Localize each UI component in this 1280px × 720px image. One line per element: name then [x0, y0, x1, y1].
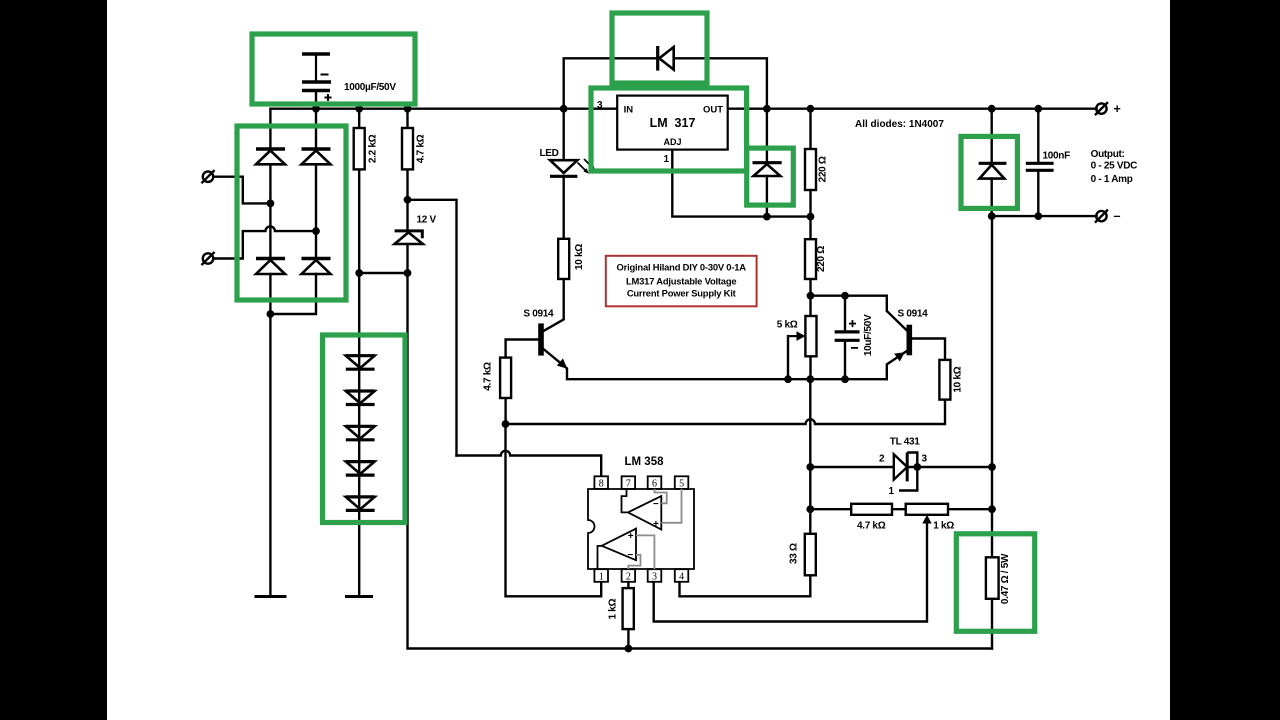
resistor R5 4.7k body [500, 358, 511, 398]
resistor R14 0.47/5W body [986, 557, 999, 599]
node: OUT bus at D8 [763, 105, 771, 113]
op-amp A output jog to pin 7 [622, 489, 628, 513]
highlight box: LM317 [591, 88, 747, 171]
svg-text:33 Ω: 33 Ω [789, 543, 800, 564]
wire: main input bus y=108.7 from bridge corner to LM317 IN [270, 109, 617, 148]
node: ADJ rail at R6/R7 [807, 213, 815, 221]
input terminal A (upper) [202, 170, 215, 183]
highlight box: output diode D7 [961, 136, 1017, 208]
capacitor C3 100nF [1026, 163, 1054, 170]
capacitor C2 10uF/50V [835, 320, 860, 348]
wire: LED column top corner to bypass diode wire y=58.3 [564, 58, 658, 108]
svg-text:5 kΩ: 5 kΩ [777, 320, 798, 331]
diode D1 bridge top-left [256, 149, 285, 164]
LM358 pin 7 [622, 476, 636, 489]
diode D2 bridge top-right [302, 149, 331, 164]
diode D6 bypass (top) [658, 46, 674, 71]
node: divider row at x=810 [806, 505, 814, 513]
wire: 5k pot bottom lead [809, 356, 811, 379]
svg-text:2.2 kΩ: 2.2 kΩ [368, 134, 379, 163]
highlight box: bridge rectifier [237, 126, 346, 300]
wire: zener column down corner to bottom bus y=648 [408, 273, 993, 649]
wire: Q2 base to R10 10k [912, 339, 945, 360]
wire: bridge left column D1 to AC junction [269, 164, 271, 258]
wire: LM317 OUT to bus [728, 107, 1097, 109]
node: minus column at divider row [988, 505, 996, 513]
node: bus at R1 [355, 105, 363, 113]
diode D7 output protect [979, 163, 1007, 178]
node: minus rail at D7 [988, 212, 996, 220]
node: C2 top [841, 292, 849, 300]
wire: zener junction down to zener D5 [406, 200, 408, 231]
svg-text:4.7 kΩ: 4.7 kΩ [416, 134, 427, 163]
svg-text:10 kΩ: 10 kΩ [574, 244, 585, 270]
svg-text:S 0914: S 0914 [523, 309, 554, 320]
svg-text:100nF: 100nF [1043, 151, 1071, 162]
ground bar left (bridge return) [255, 595, 287, 598]
diode chain D13 [346, 497, 375, 511]
diode D3 bridge bottom-left [256, 259, 285, 275]
svg-text:220 Ω: 220 Ω [816, 246, 827, 272]
resistor R6 220 body [805, 149, 816, 190]
svg-text:3: 3 [597, 100, 603, 111]
IC U2 LM358 [588, 476, 694, 582]
svg-text:Current Power Supply Kit: Current Power Supply Kit [627, 287, 736, 298]
svg-text:OUT: OUT [703, 105, 723, 116]
letterbox right black bar [1170, 0, 1280, 720]
wire: ADJ diode to ADJ rail [766, 176, 768, 217]
node: minus rail at C3 [1034, 212, 1042, 220]
svg-text:0 - 1 Amp: 0 - 1 Amp [1091, 174, 1133, 185]
op-amp U1 LM317 body [617, 96, 728, 150]
wire: from zener junction right then down to pin8 feed [408, 200, 457, 456]
svg-text:6: 6 [652, 479, 657, 490]
resistor R9 1k body (horizontal, pot) [906, 504, 948, 524]
op-amp A (top, pins 5-6-7) [628, 496, 661, 529]
node: OUT bus at R6 [807, 105, 815, 113]
svg-text:–: – [1114, 209, 1121, 223]
node: AC1 into bridge [267, 200, 275, 208]
LM358 pin 5 [675, 476, 689, 489]
LM358 pin 6 [648, 476, 662, 489]
diode chain D11 [346, 426, 375, 440]
wire: R6 220 bottom lead [809, 190, 811, 217]
wire: zener D5 to junction y=273 [406, 244, 408, 273]
svg-text:ADJ: ADJ [663, 137, 681, 147]
svg-text:5: 5 [679, 479, 684, 490]
resistor R8 4.7k body (horizontal) [851, 504, 892, 515]
wire: LED to R4 10k [563, 176, 565, 239]
wire: LM317 ADJ pin down and right [672, 150, 810, 217]
shunt regulator U3 TL431 [894, 453, 918, 491]
diode chain D9 [346, 356, 375, 370]
ground bar right (diode chain return) [345, 595, 373, 598]
wire: R12 1k wiper arrow stem down to pin3 rail [654, 521, 927, 622]
wire: output minus column down to TL431 row [991, 216, 993, 467]
node: wiper on emitter rail [784, 375, 792, 383]
svg-text:S 0914: S 0914 [898, 309, 929, 320]
svg-text:7: 7 [626, 479, 631, 490]
svg-text:+: + [628, 531, 634, 542]
highlight box: R14 0.47R [956, 534, 1034, 632]
wire: AC input 1 to bridge [214, 177, 271, 204]
resistor R7 220 body [805, 239, 816, 279]
svg-text:LM 317: LM 317 [650, 116, 696, 130]
wire: R5 4.7k bottom lead to node [504, 398, 506, 424]
op-amp B output jog to pin 1 [598, 546, 602, 569]
wire: 5k pot top lead [809, 296, 811, 316]
svg-text:8: 8 [599, 479, 604, 490]
wire: output diode D7 bottom lead [991, 179, 993, 217]
svg-text:−: − [653, 499, 659, 510]
wire: bridge left column lower D3 to bottom junction [269, 274, 271, 314]
node: zener bottom junction [404, 269, 412, 277]
wire: Q1 emitter run to right transistor Q2 emitter [544, 349, 887, 379]
wire: divider row left 4.7k [810, 508, 851, 510]
wire: bridge right column D4 bottom corner to junction [270, 274, 316, 314]
svg-text:−: − [627, 550, 633, 561]
wire: R7 220 top lead [809, 217, 811, 240]
wire: Q1 base from R5 4.7k [506, 340, 539, 358]
node: R7 bottom node [807, 292, 815, 300]
svg-text:TL 431: TL 431 [890, 437, 920, 448]
node: zener top junction [404, 196, 412, 204]
node: OUT bus at D7 [988, 105, 996, 113]
wire: link 2.2k node to zener node y=273 [359, 272, 407, 274]
op-amp A non-inverting input from pin 5 [661, 489, 681, 523]
transistor Q1 S0914 [538, 323, 567, 368]
node: bus at LED column [560, 105, 568, 113]
svg-text:12 V: 12 V [417, 215, 437, 226]
wire: bridge right column top (bus to D2 bar) [315, 109, 317, 149]
resistor R10 10k body [939, 360, 950, 400]
wire: AC input 2 to bridge with hop over left column [214, 226, 317, 258]
wire: C2 10uF bottom lead [844, 340, 846, 379]
wire: R6 220 top lead [809, 109, 811, 149]
svg-text:All diodes: 1N4007: All diodes: 1N4007 [855, 119, 944, 130]
highlight box: ADJ diode D8 [747, 148, 794, 205]
wire: divider row middle link [892, 508, 906, 510]
node: bridge bottom junction [267, 310, 275, 318]
LM358 pin 3 [648, 569, 662, 582]
svg-text:1: 1 [664, 154, 670, 165]
zener diode D5 12V [395, 231, 423, 244]
wire: output minus rail to terminal [992, 215, 1097, 217]
node: R5 bottom / feedback [502, 420, 510, 428]
svg-text:3: 3 [922, 454, 928, 465]
resistor R1 2.2k body [354, 128, 365, 169]
resistor R13 33 body [805, 534, 816, 576]
svg-text:4.7 kΩ: 4.7 kΩ [857, 521, 886, 532]
wire: output diode D7 top lead [991, 109, 993, 164]
node: TL431 anode row at x=810 [806, 463, 814, 471]
output terminal minus [1095, 210, 1108, 223]
svg-text:LM 358: LM 358 [625, 456, 665, 468]
wire: 5k pot wiper down to emitter rail [787, 336, 789, 379]
note box (red) [606, 256, 757, 306]
LED LED1 [550, 159, 595, 176]
wire: C3 100nF bottom lead [1037, 170, 1039, 216]
LM358 pin 2 [622, 569, 636, 582]
wire: R2 4.7k top lead [406, 109, 408, 128]
node: TL431 ref tie [913, 463, 921, 471]
svg-text:220 Ω: 220 Ω [818, 156, 829, 182]
svg-text:1 kΩ: 1 kΩ [608, 599, 619, 620]
node: R1/chain junction [355, 269, 363, 277]
wire: R11 1k (pin2) top stub [627, 582, 629, 588]
wire: bridge bottom to ground rail [269, 314, 271, 597]
diode D4 bridge bottom-right [302, 259, 331, 275]
op-amp B (bottom, pins 1-2-3) [602, 529, 636, 561]
wire: TL431 anode row [810, 466, 894, 468]
wire: R4 10k bottom to Q1 collector [544, 279, 564, 331]
svg-text:0.47 Ω / 5W: 0.47 Ω / 5W [1000, 553, 1011, 604]
node: C2 bottom on emitter rail [841, 375, 849, 383]
wire: TL431 cathode row to minus column [907, 466, 992, 468]
svg-text:1000µF/50V: 1000µF/50V [344, 82, 396, 93]
LM358 pin 4 [675, 569, 689, 582]
node: minus column at TL431 row [988, 463, 996, 471]
node: OUT bus at C3 [1034, 105, 1042, 113]
svg-text:2: 2 [626, 572, 631, 583]
wire: LED column bus to LED [563, 109, 565, 161]
wire: node x=810 down through TL431 and divider rows to 33R [809, 379, 811, 534]
capacitor C1 1000uF/50V [302, 54, 332, 101]
wire: ADJ protection diode column [766, 109, 768, 163]
diode chain D12 [346, 462, 375, 476]
wire: diode chain column from y=273 to ground rail [358, 273, 360, 597]
wire: R7 220 bottom to node y=295.7 [809, 279, 811, 296]
svg-text:10uF/50V: 10uF/50V [863, 314, 874, 356]
node: ADJ rail at D8 [763, 213, 771, 221]
svg-text:4: 4 [679, 572, 684, 583]
svg-text:+: + [653, 519, 659, 530]
resistor R11 1k body (vertical) [623, 588, 634, 629]
resistor R2 4.7k body [402, 128, 413, 169]
wire: divider row right to minus column [948, 508, 992, 510]
svg-text:0 - 25 VDC: 0 - 25 VDC [1091, 161, 1138, 172]
wire: node x=505.5 down to LM358 pin1 loop [506, 424, 602, 596]
svg-text:4.7 kΩ: 4.7 kΩ [483, 362, 494, 391]
wire: C2 10uF top lead [844, 296, 846, 332]
LM358 pin 8 [594, 476, 608, 489]
wire: R11 1k bottom to bottom bus [627, 629, 629, 648]
resistor R4 10k body [558, 239, 569, 279]
diode D8 ADJ protect [753, 163, 782, 176]
wire: capacitor C1 lead down to bus [315, 91, 317, 109]
wire: Q2 emitter down to rail [887, 351, 907, 380]
highlight box: capacitor C1 [252, 34, 415, 104]
potentiometer R3 5k body [788, 316, 817, 356]
svg-text:+: + [1114, 102, 1121, 116]
svg-text:1 kΩ: 1 kΩ [933, 521, 954, 532]
node: AC2 into bridge [312, 227, 320, 235]
svg-text:3: 3 [652, 572, 657, 583]
svg-text:IN: IN [624, 105, 634, 116]
svg-text:LED: LED [540, 148, 559, 159]
wire: horizontal to LM358 pin8 with hop over x=505.5 [457, 451, 602, 477]
wire: R14 0.47R bottom to bottom bus [991, 599, 993, 649]
LM358 pin 1 [594, 569, 608, 582]
svg-text:1: 1 [889, 486, 895, 497]
wire: bridge right column D2 to D4 [315, 164, 317, 258]
node: bottom bus at R11 [625, 645, 633, 653]
highlight box: bypass diode D6 [612, 13, 707, 83]
wire: bypass diode right side down to OUT bus [674, 58, 767, 108]
wire: R2 4.7k bottom lead to zener junction [406, 169, 408, 199]
op-amp B non-inverting input from pin 3 [636, 535, 654, 569]
node: bus at C1 [312, 105, 320, 113]
highlight box: diode chain [323, 335, 406, 523]
output terminal plus [1095, 102, 1108, 115]
svg-text:Original Hiland DIY 0-30V 0-1A: Original Hiland DIY 0-30V 0-1A [617, 262, 747, 273]
node: bus at R2 [404, 105, 412, 113]
wire: R14 0.47R top lead [991, 467, 993, 557]
svg-text:LM317 Adjustable Voltage: LM317 Adjustable Voltage [626, 276, 736, 287]
wire: node to Q2 collector [811, 296, 908, 331]
wire: R1 2.2k bottom lead [358, 169, 360, 273]
wire: R10 10k(right) bottom bus y=424 with hop over x=810 [506, 400, 946, 424]
op-amp A inverting input from pin 6 [655, 489, 667, 503]
wire: R13 33R bottom to LM358 pin4 [680, 575, 811, 596]
letterbox left black bar [0, 0, 107, 720]
svg-text:Output:: Output: [1091, 149, 1125, 160]
svg-text:10 kΩ: 10 kΩ [953, 366, 964, 392]
wire: R1 2.2k top lead [358, 109, 360, 128]
input terminal B (lower) [202, 252, 215, 265]
diode chain D10 [346, 391, 375, 405]
svg-text:2: 2 [879, 454, 885, 465]
wire: C3 100nF top lead [1037, 109, 1039, 164]
op-amp B inverting input from pin 2 [628, 555, 640, 569]
svg-text:1: 1 [599, 572, 604, 583]
transistor Q2 S0914 [894, 325, 912, 362]
node: pot bottom on emitter rail [806, 375, 814, 383]
LM358 body [588, 489, 694, 569]
